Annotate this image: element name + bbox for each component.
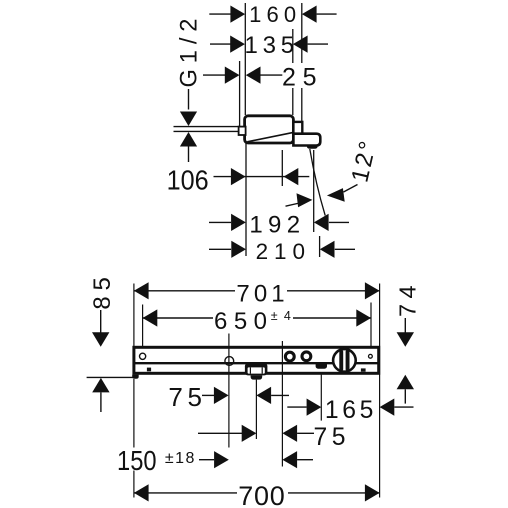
dimension 75 row C [198, 424, 346, 451]
extension line wall plane below spout [245, 143, 247, 256]
svg-text:210: 210 [256, 239, 305, 264]
vertical line through hole A [228, 334, 230, 448]
extension line 160 right [301, 3, 303, 63]
dimension 106 [167, 165, 310, 196]
vertical line B (clamp) [255, 380, 257, 439]
extension line 210 endpoint [319, 236, 321, 257]
extension line 25 left (tab face) [239, 61, 241, 126]
extension line left of spout body (wall plane) top [244, 3, 246, 115]
angle 12 degrees arrows [286, 139, 382, 207]
eco button [316, 362, 327, 368]
slider clamp [245, 363, 268, 380]
tiny right hole [369, 354, 373, 358]
G1/2 down arrow [180, 112, 197, 127]
dimension 135 [210, 32, 328, 59]
dimension 192 [209, 212, 349, 239]
pipe connection double lines [174, 126, 241, 128]
wall tab [239, 127, 246, 135]
circle on line A [225, 357, 234, 366]
extension line 650 right [370, 303, 372, 347]
left small hole [140, 353, 146, 359]
shower bar body [132, 347, 379, 379]
bar left foot [132, 375, 139, 379]
bar mid line [135, 362, 378, 364]
svg-text:±18: ±18 [165, 450, 195, 467]
dimension 160 [209, 2, 336, 27]
clamp bottom tab [251, 375, 263, 379]
vertical line C [281, 341, 283, 467]
extension line bar left edge (701/700) [133, 284, 135, 347]
G1/2 leader stem lower [188, 147, 190, 163]
dimension 165 row B [287, 397, 413, 424]
svg-text:701: 701 [236, 281, 284, 308]
svg-text:650: 650 [214, 308, 267, 335]
svg-text:700: 700 [238, 481, 285, 508]
spout body [239, 116, 321, 149]
extension line bar right edge (701/700) [379, 284, 381, 498]
dimension 650 plus-minus 4 [143, 308, 371, 335]
stream vertical line [313, 150, 315, 232]
svg-text:160: 160 [249, 2, 296, 27]
extension line 135 right [292, 29, 294, 63]
G1/2 leader stem upper [188, 89, 190, 110]
svg-text:106: 106 [167, 165, 209, 196]
vertical line D (eco) [320, 373, 322, 421]
svg-text:192: 192 [249, 212, 300, 239]
svg-text:150: 150 [117, 445, 157, 476]
outlet nub [307, 145, 318, 149]
body diagonal seam [247, 132, 294, 142]
svg-text:G1/2: G1/2 [176, 19, 202, 88]
stream 12 degree line [310, 149, 325, 216]
extension line 650 left [142, 305, 144, 347]
extension line outlet (106 endpoint) [281, 150, 283, 186]
dimension 25 [203, 64, 317, 92]
dimension 700 row E [134, 481, 380, 508]
label 74 rotated with leader [394, 285, 420, 403]
dimension 701 [134, 281, 380, 308]
step between body and spout arm [293, 122, 302, 134]
spout arm [293, 134, 320, 146]
G1/2 up arrow [180, 132, 197, 147]
dimension 210 [209, 239, 355, 264]
svg-text:165: 165 [325, 397, 374, 424]
right small square mark [361, 368, 366, 371]
left reference line under bar [87, 376, 133, 378]
dimension 75 row A [168, 382, 289, 412]
label G1/2 rotated [174, 19, 241, 163]
thermostat knob [333, 349, 356, 372]
label 85 rotated with leader [87, 277, 133, 412]
dimension 150 plus-minus 18 row D [115, 445, 313, 476]
ring button 1 [285, 352, 294, 361]
svg-text:135: 135 [245, 32, 295, 59]
ring button 2 [302, 352, 311, 361]
left small square mark [147, 368, 151, 372]
